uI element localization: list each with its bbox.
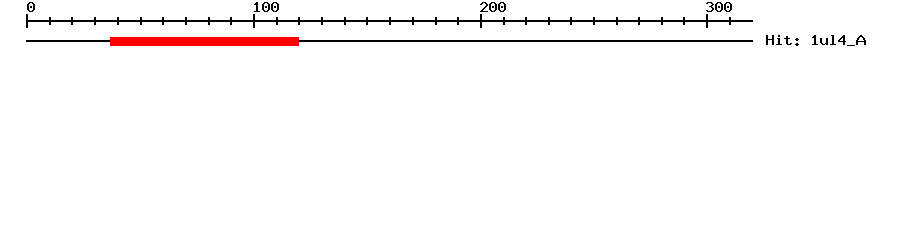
scale label 300 [706,2,732,12]
hit alignment bar (red) [110,37,299,46]
ruler axis line [26,20,753,22]
major tick 100 [253,14,255,28]
scale label 0 [27,2,35,12]
query sequence line [26,40,753,42]
major tick 200 [480,14,482,28]
scale label 200 [480,2,506,12]
major tick 300 [706,14,708,28]
minor ticks every 10 residues [49,17,731,25]
hit label text "Hit: 1ul4_A" [766,35,866,46]
scale label 100 [254,2,279,12]
major tick 0 [26,14,28,28]
